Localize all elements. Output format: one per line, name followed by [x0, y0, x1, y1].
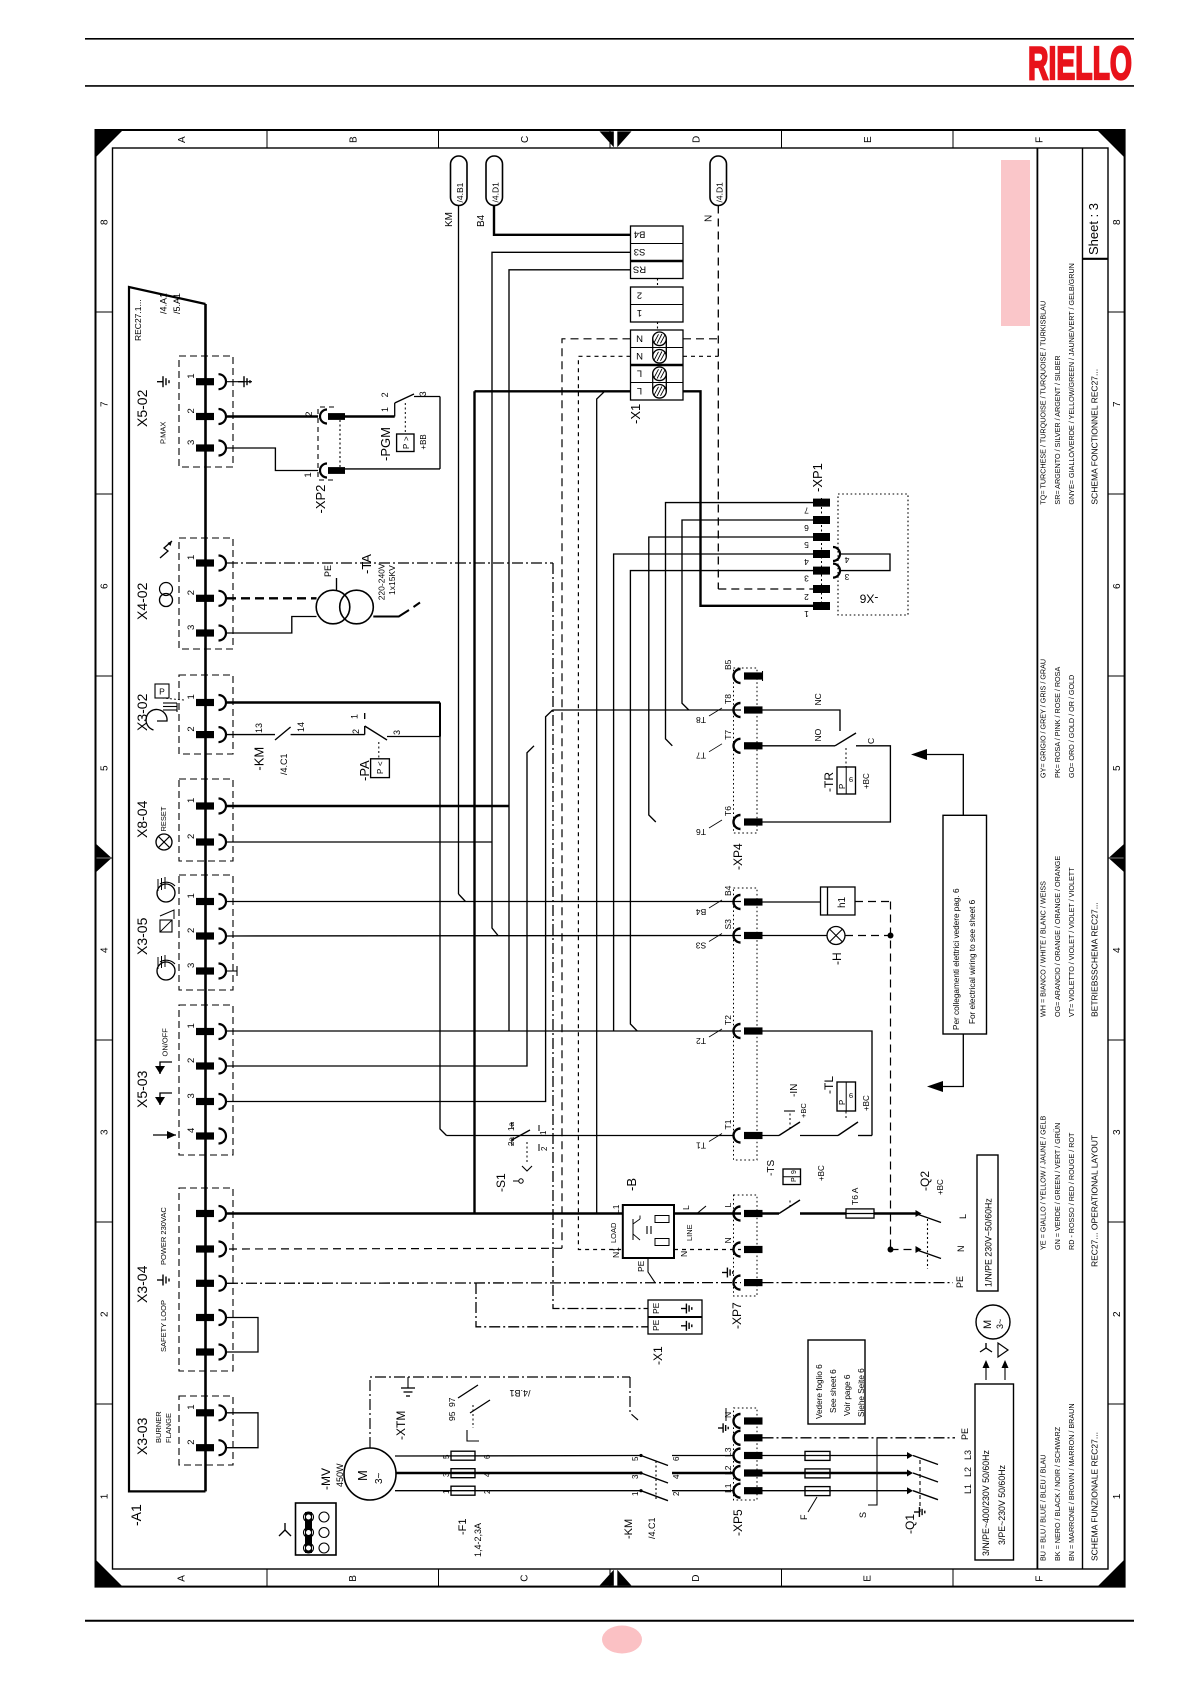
- overload F1: [451, 1451, 475, 1460]
- svg-text:2: 2: [100, 1311, 111, 1317]
- svg-text:B5: B5: [723, 659, 733, 670]
- wye mark: [279, 1530, 291, 1536]
- X3-05 pin 3: [196, 967, 214, 974]
- X3-03 pin 1: [196, 1409, 214, 1416]
- switch TS: [779, 1200, 800, 1214]
- X3-02 pressure icon: [155, 684, 169, 698]
- X5-02 ground icon: [157, 381, 163, 383]
- svg-text:L: L: [681, 1205, 691, 1210]
- header rule bottom: [85, 85, 1134, 87]
- svg-text:6: 6: [1112, 583, 1123, 589]
- svg-text:NO: NO: [813, 728, 823, 741]
- svg-text:L3: L3: [963, 1450, 973, 1460]
- terminal XP5 N: [734, 1414, 741, 1428]
- svg-text:-IN: -IN: [789, 1084, 800, 1097]
- X1 L wire jog: [475, 390, 631, 392]
- svg-text:-XP5: -XP5: [731, 1509, 745, 1536]
- terminal B5: [734, 669, 741, 683]
- lamp H: [827, 927, 845, 945]
- svg-text:4: 4: [100, 947, 111, 953]
- wires XP1 pins to risers: [666, 503, 814, 746]
- X3-04 pin 5: [196, 1348, 214, 1355]
- svg-text:-Q2: -Q2: [918, 1171, 932, 1191]
- svg-text:-B: -B: [624, 1178, 639, 1191]
- svg-text:X5-03: X5-03: [134, 1070, 150, 1108]
- svg-text:T7: T7: [723, 730, 733, 740]
- svg-text:>: >: [402, 436, 411, 441]
- svg-text:2: 2: [186, 590, 197, 595]
- switch Q1 poles: [907, 1452, 913, 1459]
- svg-text:X8-04: X8-04: [134, 800, 150, 838]
- X4-02 lightning icon: [160, 541, 172, 558]
- svg-text:8: 8: [100, 219, 111, 225]
- svg-text:L: L: [723, 1203, 733, 1208]
- X3-04 pin 4: [196, 1314, 214, 1321]
- svg-text:2: 2: [186, 928, 197, 933]
- svg-text:1a: 1a: [507, 1122, 516, 1131]
- X3-05 fan icon a: [157, 884, 175, 902]
- connector X5-02 dashed box: [179, 356, 233, 467]
- XP2 dotted link: [339, 420, 341, 467]
- connector X3-02 dashed box: [179, 675, 233, 754]
- X1 jumper N-N: [653, 332, 667, 346]
- B PE stub: [648, 1258, 655, 1283]
- svg-text:1: 1: [186, 1405, 197, 1410]
- X6 dotted box: [838, 494, 908, 615]
- svg-text:2: 2: [637, 290, 642, 301]
- X6 jumper loop: [841, 554, 890, 571]
- flag KM /4.B1: [451, 156, 468, 206]
- svg-text:-TR: -TR: [822, 772, 836, 792]
- svg-text:/4.D1: /4.D1: [491, 182, 501, 203]
- svg-text:/4.D1: /4.D1: [715, 182, 725, 203]
- XP1 pin 1: [813, 602, 830, 610]
- KM riser joins B4 line: [459, 894, 466, 902]
- svg-text:3: 3: [804, 573, 809, 583]
- X5-03 pin 3: [196, 1098, 214, 1105]
- svg-text:TQ= TURCHESE / TURQUOISE / TUR: TQ= TURCHESE / TURQUOISE / TURQUOISE / T…: [1038, 301, 1047, 505]
- wire X4-02.2 dashed to TA: [227, 597, 317, 599]
- terminal T8: [734, 703, 741, 717]
- svg-text:-X6: -X6: [859, 591, 878, 605]
- svg-text:+BC: +BC: [817, 1165, 826, 1181]
- XP5 dotted outline: [734, 1408, 758, 1500]
- svg-text:F: F: [799, 1514, 809, 1520]
- note box see sheet 6: [808, 1340, 865, 1424]
- svg-text:A: A: [177, 1575, 188, 1582]
- terminal block X1 top: [631, 226, 684, 279]
- svg-text:7: 7: [100, 401, 111, 407]
- svg-text:L: L: [637, 385, 642, 396]
- svg-text:C: C: [866, 738, 876, 744]
- svg-text:-H: -H: [830, 952, 844, 965]
- X1 jumper L-L: [653, 367, 667, 381]
- svg-text:FLANGE: FLANGE: [164, 1413, 173, 1443]
- terminal XP5 gnd: [734, 1431, 741, 1445]
- delta symbol: [998, 1343, 1008, 1357]
- svg-text:+BC: +BC: [862, 1095, 871, 1111]
- X5-03 switch icon b: [160, 1093, 172, 1105]
- thermal XTM: [370, 1377, 630, 1448]
- svg-text:7: 7: [804, 505, 809, 515]
- svg-text:3: 3: [100, 1129, 111, 1135]
- svg-text:-XP2: -XP2: [313, 485, 328, 514]
- frame number band dividers: [96, 311, 113, 313]
- wire T8 feed line: [553, 709, 741, 711]
- svg-text:+BC: +BC: [862, 773, 871, 789]
- wire B.N dashed: [674, 1249, 741, 1251]
- svg-text:D: D: [691, 1575, 702, 1582]
- fuse T6A: [846, 1209, 874, 1218]
- svg-text:14: 14: [296, 722, 306, 732]
- wire PA output riser to T1: [440, 737, 447, 1136]
- switch Q2 pole L: [916, 1214, 942, 1223]
- svg-text:LINE: LINE: [685, 1224, 694, 1241]
- svg-text:1: 1: [631, 1491, 640, 1496]
- X3-05 pin 2: [196, 932, 214, 939]
- TR common to T6: [763, 746, 891, 822]
- svg-text:2: 2: [804, 592, 809, 602]
- svg-text:-Q1: -Q1: [903, 1514, 917, 1534]
- svg-text:P: P: [791, 1177, 798, 1182]
- XP1 pin 7: [813, 499, 830, 507]
- svg-text:BETRIEBSSCHEMA REC27...: BETRIEBSSCHEMA REC27...: [1090, 902, 1100, 1017]
- svg-text:5: 5: [442, 1454, 451, 1459]
- contactor KM 3 poles: [639, 1454, 642, 1457]
- wire riser L feed (X1.L to X3-04.1): [473, 391, 475, 1213]
- motor phase wires: [395, 1455, 641, 1458]
- svg-text:PE: PE: [323, 565, 333, 577]
- svg-text:VT= VIOLETTO / VIOLET / VIOLET: VT= VIOLETTO / VIOLET / VIOLET / VIOLETT: [1067, 867, 1076, 1017]
- svg-text:-A1: -A1: [128, 1504, 144, 1526]
- wire X3-05.2 to S3 terminal: [227, 935, 741, 938]
- svg-text:2: 2: [1112, 1311, 1123, 1317]
- svg-text:RIELLO: RIELLO: [1028, 37, 1132, 89]
- svg-text:3: 3: [631, 1474, 640, 1479]
- fuses F: [805, 1451, 830, 1460]
- X3-02 hose leader: [162, 698, 184, 700]
- svg-text:2: 2: [540, 1146, 549, 1151]
- svg-text:P: P: [159, 687, 165, 697]
- svg-text:2: 2: [186, 408, 197, 413]
- svg-text:+BC: +BC: [936, 1179, 945, 1195]
- svg-text:3: 3: [186, 440, 197, 445]
- X5-02 pin 1: [196, 378, 214, 385]
- pink highlight box: [1001, 160, 1030, 326]
- svg-text:-S1: -S1: [494, 1173, 508, 1192]
- svg-text:3/PE~230V 50/60Hz: 3/PE~230V 50/60Hz: [997, 1465, 1007, 1545]
- terminal T7: [734, 739, 741, 753]
- X3-04 pin 1: [196, 1210, 214, 1217]
- drawing frame inner: [113, 148, 1109, 1569]
- XP1 pin 2: [813, 585, 830, 593]
- TS box: [783, 1169, 801, 1185]
- N dashed drop to Q2 area: [890, 902, 892, 1250]
- svg-text:-PGM: -PGM: [378, 427, 393, 461]
- svg-text:3: 3: [186, 1093, 197, 1098]
- svg-text:3: 3: [844, 572, 849, 582]
- connector XP2 pin 2: [320, 410, 327, 424]
- svg-text:-X1: -X1: [651, 1346, 665, 1365]
- connector X3-05 dashed box: [179, 875, 233, 990]
- svg-text:/4.B1: /4.B1: [455, 182, 465, 202]
- wire L branch to XP1.1: [683, 391, 813, 606]
- svg-text:4: 4: [672, 1474, 681, 1479]
- svg-text:1: 1: [380, 407, 390, 412]
- svg-text:T6 A: T6 A: [850, 1187, 860, 1205]
- svg-text:95: 95: [447, 1411, 457, 1421]
- svg-text:4: 4: [1112, 947, 1123, 953]
- PE dash-dot from XP5: [763, 1437, 956, 1439]
- svg-text:9: 9: [849, 775, 853, 784]
- svg-text:5: 5: [804, 540, 809, 550]
- XP2 dashed outline: [318, 407, 334, 480]
- svg-text:-TL: -TL: [822, 1076, 836, 1094]
- svg-text:P: P: [376, 769, 385, 774]
- svg-text:3: 3: [392, 730, 402, 735]
- svg-text:Per collegamenti elettrici ved: Per collegamenti elettrici vedere pag. 6: [952, 888, 961, 1030]
- PGM pressure box: [404, 403, 406, 434]
- svg-text:F: F: [1034, 1576, 1045, 1582]
- svg-text:POWER 230VAC: POWER 230VAC: [159, 1207, 168, 1265]
- svg-text:1x15KV: 1x15KV: [387, 565, 397, 595]
- flag B4 /4.D1: [486, 156, 503, 206]
- svg-text:N: N: [956, 1246, 966, 1253]
- X5-03 pin 2: [196, 1062, 214, 1069]
- X3-05 indicator icon: [160, 920, 172, 932]
- X5-03 switch icon a: [160, 1062, 172, 1074]
- XP4 dotted outline upper: [734, 668, 758, 833]
- svg-text:/4.C1: /4.C1: [647, 1517, 657, 1539]
- svg-text:P.MAX: P.MAX: [159, 422, 168, 444]
- svg-text:T8: T8: [696, 715, 706, 725]
- svg-text:1: 1: [303, 472, 314, 477]
- svg-text:PE: PE: [651, 1319, 661, 1331]
- svg-text:ON/OFF: ON/OFF: [161, 1028, 170, 1057]
- wire XP7.L to TS: [763, 1212, 780, 1214]
- svg-text:/5.A1: /5.A1: [172, 293, 182, 314]
- connector X5-03 dashed box: [179, 1005, 233, 1155]
- svg-text:/4.A1: /4.A1: [159, 293, 169, 314]
- X3-04 ground icon: [157, 1279, 163, 1281]
- terminal S3: [734, 929, 741, 943]
- svg-text:GNYE= GIALLO/VERDE / YELLOW/GR: GNYE= GIALLO/VERDE / YELLOW/GREEN / JAUN…: [1067, 263, 1076, 504]
- supply box 400V: [975, 1384, 1014, 1560]
- connector X4-02 dashed box: [179, 538, 233, 649]
- phase wires to Q1: [763, 1455, 908, 1457]
- svg-text:5: 5: [631, 1456, 640, 1461]
- supply box 230V: [977, 1155, 998, 1291]
- flag N /4.D1: [710, 156, 727, 206]
- wire riser RS (X1.RS to X5-03.1): [509, 270, 631, 1032]
- wire X3-02.1 thick: [227, 701, 440, 703]
- svg-text:L1: L1: [723, 1483, 733, 1493]
- wire N dashed X1 to XP1.2: [683, 338, 718, 340]
- switch PA: [364, 726, 366, 735]
- svg-text:2: 2: [483, 1489, 492, 1494]
- svg-text:97: 97: [447, 1397, 457, 1407]
- svg-text:Sheet : 3: Sheet : 3: [1086, 203, 1101, 255]
- svg-text:3: 3: [186, 625, 197, 630]
- terminal T1: [734, 1129, 741, 1143]
- svg-text:M: M: [982, 1320, 994, 1329]
- svg-text:N: N: [723, 1412, 733, 1418]
- svg-text:/4.C1: /4.C1: [279, 753, 289, 775]
- svg-text:2: 2: [672, 1491, 681, 1496]
- svg-text:<: <: [376, 761, 385, 766]
- X5-02 pin 3: [196, 444, 214, 451]
- wire B.L to XP7.L: [674, 1212, 741, 1214]
- svg-text:450W: 450W: [335, 1463, 345, 1487]
- svg-text:BU = BLU / BLUE / BLEU / BLAU: BU = BLU / BLUE / BLEU / BLAU: [1038, 1455, 1047, 1561]
- X4-02 transformer icon: [160, 583, 173, 596]
- svg-text:BN = MARRONE / BROWN / MARRON: BN = MARRONE / BROWN / MARRON / BRAUN: [1067, 1403, 1076, 1561]
- terminal B4: [734, 895, 741, 909]
- svg-text:SAFETY LOOP: SAFETY LOOP: [159, 1300, 168, 1352]
- svg-text:h1: h1: [837, 896, 848, 908]
- star symbol: [980, 1348, 992, 1352]
- svg-text:1: 1: [350, 714, 360, 719]
- X3-04 pin 3: [196, 1280, 214, 1287]
- X8-04 pin 2: [196, 838, 214, 845]
- svg-text:S3: S3: [634, 246, 646, 257]
- wire X8-04.2 to S3 riser: [227, 841, 492, 843]
- svg-text:REC27.1...: REC27.1...: [133, 299, 143, 341]
- svg-text:3~: 3~: [995, 1319, 1005, 1329]
- wire T2 loop to TL: [763, 1031, 873, 1136]
- svg-text:GY= GRIGIO / GREY / GRIS / GRA: GY= GRIGIO / GREY / GRIS / GRAU: [1038, 659, 1047, 778]
- svg-text:3: 3: [418, 391, 428, 396]
- svg-text:3/N/PE~400/230V 50/60Hz: 3/N/PE~400/230V 50/60Hz: [981, 1450, 991, 1556]
- svg-text:OG= ARANCIO / ORANGE / ORANGE: OG= ARANCIO / ORANGE / ORANGE / ORANGE: [1053, 856, 1062, 1017]
- X5-03 pin 4: [196, 1132, 214, 1139]
- svg-text:1: 1: [186, 798, 197, 803]
- svg-text:B4: B4: [476, 214, 487, 227]
- X4-02 pin 3: [196, 629, 214, 636]
- motor MV: [344, 1448, 396, 1500]
- svg-text:PE: PE: [955, 1276, 965, 1288]
- svg-text:4: 4: [483, 1472, 492, 1477]
- svg-text:D: D: [691, 136, 702, 143]
- X3-03 flange bridge: [227, 1413, 258, 1448]
- svg-text:S3: S3: [696, 940, 707, 950]
- svg-text:X5-02: X5-02: [134, 389, 150, 427]
- X3-02 pin 2: [196, 731, 214, 738]
- svg-text:RD - ROSSO / RED / ROUGE / ROT: RD - ROSSO / RED / ROUGE / ROT: [1067, 1132, 1076, 1250]
- svg-text:2: 2: [380, 392, 390, 397]
- wire X5-02.2 to XP2.2: [227, 415, 318, 417]
- svg-text:S3: S3: [723, 919, 733, 930]
- terminal T2: [734, 1024, 741, 1038]
- L riser X1.L to B.L1: [597, 391, 605, 1213]
- X5-03 pin 1: [196, 1028, 214, 1035]
- Q2 tie dotted: [927, 1219, 929, 1269]
- svg-text:-TA: -TA: [359, 554, 374, 574]
- svg-text:N: N: [704, 215, 715, 222]
- footer rule: [85, 1620, 1134, 1622]
- svg-text:A: A: [177, 136, 188, 143]
- X1 dotted links: [657, 279, 659, 288]
- note link to TR arrow: [916, 755, 963, 816]
- svg-text:T1: T1: [723, 1119, 733, 1129]
- svg-text:PE: PE: [636, 1260, 646, 1272]
- wire X5-03.1 to terminal T2: [227, 1030, 741, 1032]
- svg-text:M: M: [355, 1470, 370, 1481]
- X6 mating pins 4,3: [833, 547, 840, 561]
- svg-text:9: 9: [849, 1091, 853, 1100]
- XP1 pin 6: [813, 516, 830, 524]
- svg-text:2a: 2a: [507, 1137, 516, 1146]
- wire X5-03.3 riser to T8: [227, 710, 553, 1102]
- svg-text:PE: PE: [651, 1302, 661, 1314]
- svg-text:/4.B1: /4.B1: [509, 1388, 530, 1398]
- connector X3-03 dashed box: [179, 1396, 233, 1465]
- svg-text:4: 4: [186, 1128, 197, 1133]
- X5-02 pin 2: [196, 413, 214, 420]
- svg-text:2: 2: [186, 1439, 197, 1444]
- pink ellipse marker: [602, 1626, 642, 1654]
- svg-text:-TS: -TS: [766, 1160, 777, 1176]
- wire X4-02.3 to TA: [227, 617, 317, 634]
- terminal XP7 L: [734, 1207, 741, 1221]
- svg-text:220-240V: 220-240V: [377, 563, 387, 600]
- X3-02 coil icon: [146, 709, 167, 730]
- wire X3-05.1 to B4 line: [227, 901, 741, 903]
- PA link to A1 line: [439, 703, 441, 737]
- IN actuator dotted: [789, 1111, 791, 1129]
- svg-text:1: 1: [186, 694, 197, 699]
- X4-02 pin 1: [196, 559, 214, 566]
- contact IN: [763, 1135, 780, 1137]
- svg-text:L: L: [637, 368, 642, 379]
- svg-text:1,4-2,3A: 1,4-2,3A: [473, 1523, 483, 1557]
- svg-text:-XTM: -XTM: [394, 1411, 408, 1440]
- terminal XP7 PE: [734, 1276, 741, 1290]
- svg-text:GN = VERDE / GREEN / VERT / GR: GN = VERDE / GREEN / VERT / GRÜN: [1053, 1123, 1062, 1250]
- terminal XP5 L3: [734, 1449, 741, 1463]
- wire X5-03.2 riser to T7: [227, 746, 534, 1066]
- svg-text:T1: T1: [696, 1140, 706, 1150]
- svg-text:4: 4: [844, 555, 849, 565]
- wire KM to PA: [291, 734, 365, 736]
- XTM ground: [407, 1377, 409, 1388]
- header rule top: [85, 38, 1134, 40]
- X3-04 pin 2: [196, 1245, 214, 1252]
- svg-text:-F1: -F1: [457, 1519, 469, 1536]
- svg-text:P: P: [402, 444, 411, 449]
- wire T8 to TR NC: [763, 710, 841, 731]
- PA pressure box: [378, 742, 380, 759]
- switch PGM: [394, 403, 396, 417]
- svg-text:PK= ROSA / PINK / ROSE / ROSA: PK= ROSA / PINK / ROSE / ROSA: [1053, 667, 1062, 778]
- svg-text:2: 2: [186, 1058, 197, 1063]
- X5-03 arrow icon: [153, 1134, 176, 1136]
- svg-text:T6: T6: [723, 806, 733, 816]
- svg-text:1: 1: [186, 373, 197, 378]
- svg-text:+BC: +BC: [799, 1103, 808, 1118]
- svg-text:For electrical wiring to see s: For electrical wiring to see sheet 6: [968, 899, 977, 1024]
- terminal block X1 PE: [648, 1300, 702, 1334]
- svg-text:3~: 3~: [374, 1472, 385, 1484]
- motor symbol M3 (note): [976, 1305, 1010, 1339]
- svg-text:+BB: +BB: [419, 434, 428, 449]
- svg-text:1: 1: [186, 555, 197, 560]
- B internals: [655, 1216, 669, 1223]
- svg-text:L1: L1: [963, 1484, 973, 1494]
- mid-edge centering marks: [600, 131, 614, 147]
- wire X4-02.1 PE dashdot: [227, 562, 553, 564]
- svg-text:-MV: -MV: [319, 1468, 333, 1490]
